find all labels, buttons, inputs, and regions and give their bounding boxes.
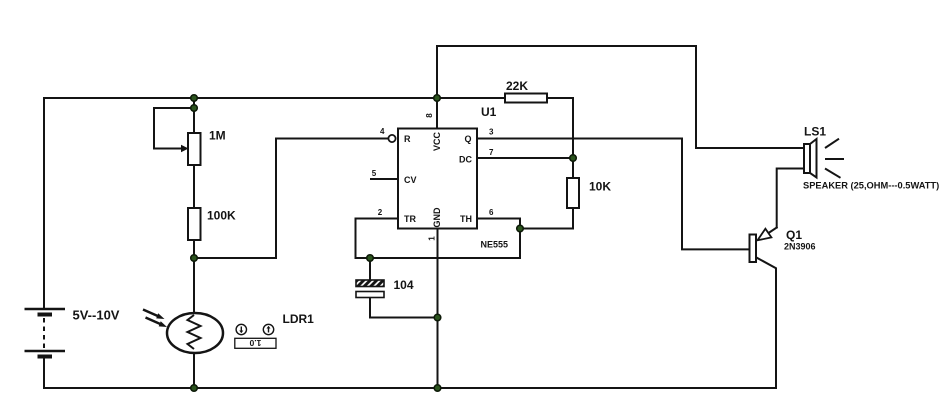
wire 22K right to vertical bbox=[547, 98, 573, 178]
wire CV pin5 stub bbox=[371, 178, 398, 180]
node TR / cap bbox=[367, 255, 374, 262]
svg-text:100K: 100K bbox=[207, 209, 236, 223]
wire bottom rail bbox=[44, 387, 776, 389]
svg-text:5: 5 bbox=[372, 169, 377, 178]
potentiometer 1M bbox=[154, 108, 201, 165]
wire collector bbox=[756, 257, 776, 388]
node DC / 10K bbox=[570, 155, 577, 162]
node LDR / bottom rail bbox=[191, 385, 198, 392]
photoresistor LDR1 bbox=[143, 310, 223, 354]
svg-text:1M: 1M bbox=[209, 129, 226, 143]
pin 4 reset bubble bbox=[388, 135, 395, 142]
svg-text:DC: DC bbox=[459, 155, 472, 165]
icon rotate down bbox=[236, 324, 246, 334]
wire TH pin6 bbox=[356, 219, 521, 259]
wire battery left vertical top bbox=[43, 98, 45, 309]
wire VCC pin8 up bbox=[436, 46, 438, 129]
svg-text:104: 104 bbox=[394, 278, 414, 292]
svg-text:VCC: VCC bbox=[432, 132, 442, 152]
wire pot branch vertical bbox=[193, 98, 195, 133]
svg-text:8: 8 bbox=[425, 113, 434, 118]
battery B1 5V--10V bbox=[25, 309, 66, 357]
svg-text:R: R bbox=[404, 134, 411, 144]
svg-text:3: 3 bbox=[489, 128, 494, 137]
svg-text:LDR1: LDR1 bbox=[283, 312, 315, 326]
svg-text:22K: 22K bbox=[506, 79, 528, 93]
svg-text:7: 7 bbox=[489, 148, 494, 157]
wire top rail left bbox=[44, 97, 505, 99]
wire top rail right bbox=[437, 46, 804, 148]
svg-text:NE555: NE555 bbox=[481, 240, 509, 250]
svg-text:Q: Q bbox=[465, 134, 472, 144]
wire Q output pin3 to base bbox=[477, 139, 750, 250]
node top rail / pot bbox=[191, 95, 198, 102]
wire battery bottom bbox=[43, 357, 45, 388]
resistor R 100K bbox=[188, 208, 201, 240]
wire speaker bottom to emitter bbox=[777, 169, 804, 228]
wire 100K to LDR bbox=[193, 240, 195, 315]
svg-text:4: 4 bbox=[380, 127, 385, 136]
node TH / 10K bbox=[517, 225, 524, 232]
node 100K / LDR / reset bbox=[191, 255, 198, 262]
label 1.0 flipped bbox=[235, 338, 276, 348]
node GND / bottom rail bbox=[434, 385, 441, 392]
svg-text:5V--10V: 5V--10V bbox=[73, 308, 120, 323]
wire GND pin1 down bbox=[437, 229, 439, 389]
wire capacitor top lead bbox=[369, 258, 371, 280]
svg-text:SPEAKER (25,OHM---0.5WATT): SPEAKER (25,OHM---0.5WATT) bbox=[803, 181, 939, 191]
svg-text:1.0: 1.0 bbox=[249, 338, 261, 348]
svg-text:TH: TH bbox=[460, 214, 472, 224]
wire 10K bottom to TH junction bbox=[520, 208, 573, 229]
svg-text:LS1: LS1 bbox=[804, 125, 826, 139]
node VCC rail bbox=[434, 95, 441, 102]
svg-text:1: 1 bbox=[428, 236, 437, 241]
wire DC pin7 bbox=[477, 157, 573, 159]
node cap return / GND bbox=[434, 314, 441, 321]
capacitor 104 bbox=[356, 280, 384, 298]
transistor Q1 2N3906 bbox=[750, 229, 772, 262]
wire emitter diagonal bbox=[766, 228, 777, 235]
node pot wiper bbox=[191, 105, 198, 112]
resistor 10K bbox=[567, 178, 579, 208]
speaker LS1 bbox=[804, 139, 844, 178]
wire pot to 100K bbox=[193, 165, 195, 208]
svg-text:2: 2 bbox=[378, 208, 383, 217]
svg-text:U1: U1 bbox=[481, 105, 497, 119]
svg-text:CV: CV bbox=[404, 175, 417, 185]
wire capacitor bottom lead bbox=[370, 298, 438, 318]
icon rotate up bbox=[263, 324, 273, 334]
svg-text:TR: TR bbox=[404, 214, 416, 224]
svg-text:GND: GND bbox=[432, 207, 442, 228]
wire reset branch bbox=[194, 139, 389, 259]
op-amp U1 NE555 box bbox=[398, 129, 477, 229]
svg-text:6: 6 bbox=[489, 208, 494, 217]
junction node dots bbox=[191, 95, 577, 392]
svg-text:2N3906: 2N3906 bbox=[784, 242, 816, 252]
resistor 22K bbox=[505, 94, 547, 103]
svg-text:10K: 10K bbox=[589, 180, 611, 194]
wire LDR to bottom rail bbox=[193, 351, 195, 388]
svg-text:Q1: Q1 bbox=[786, 228, 802, 242]
